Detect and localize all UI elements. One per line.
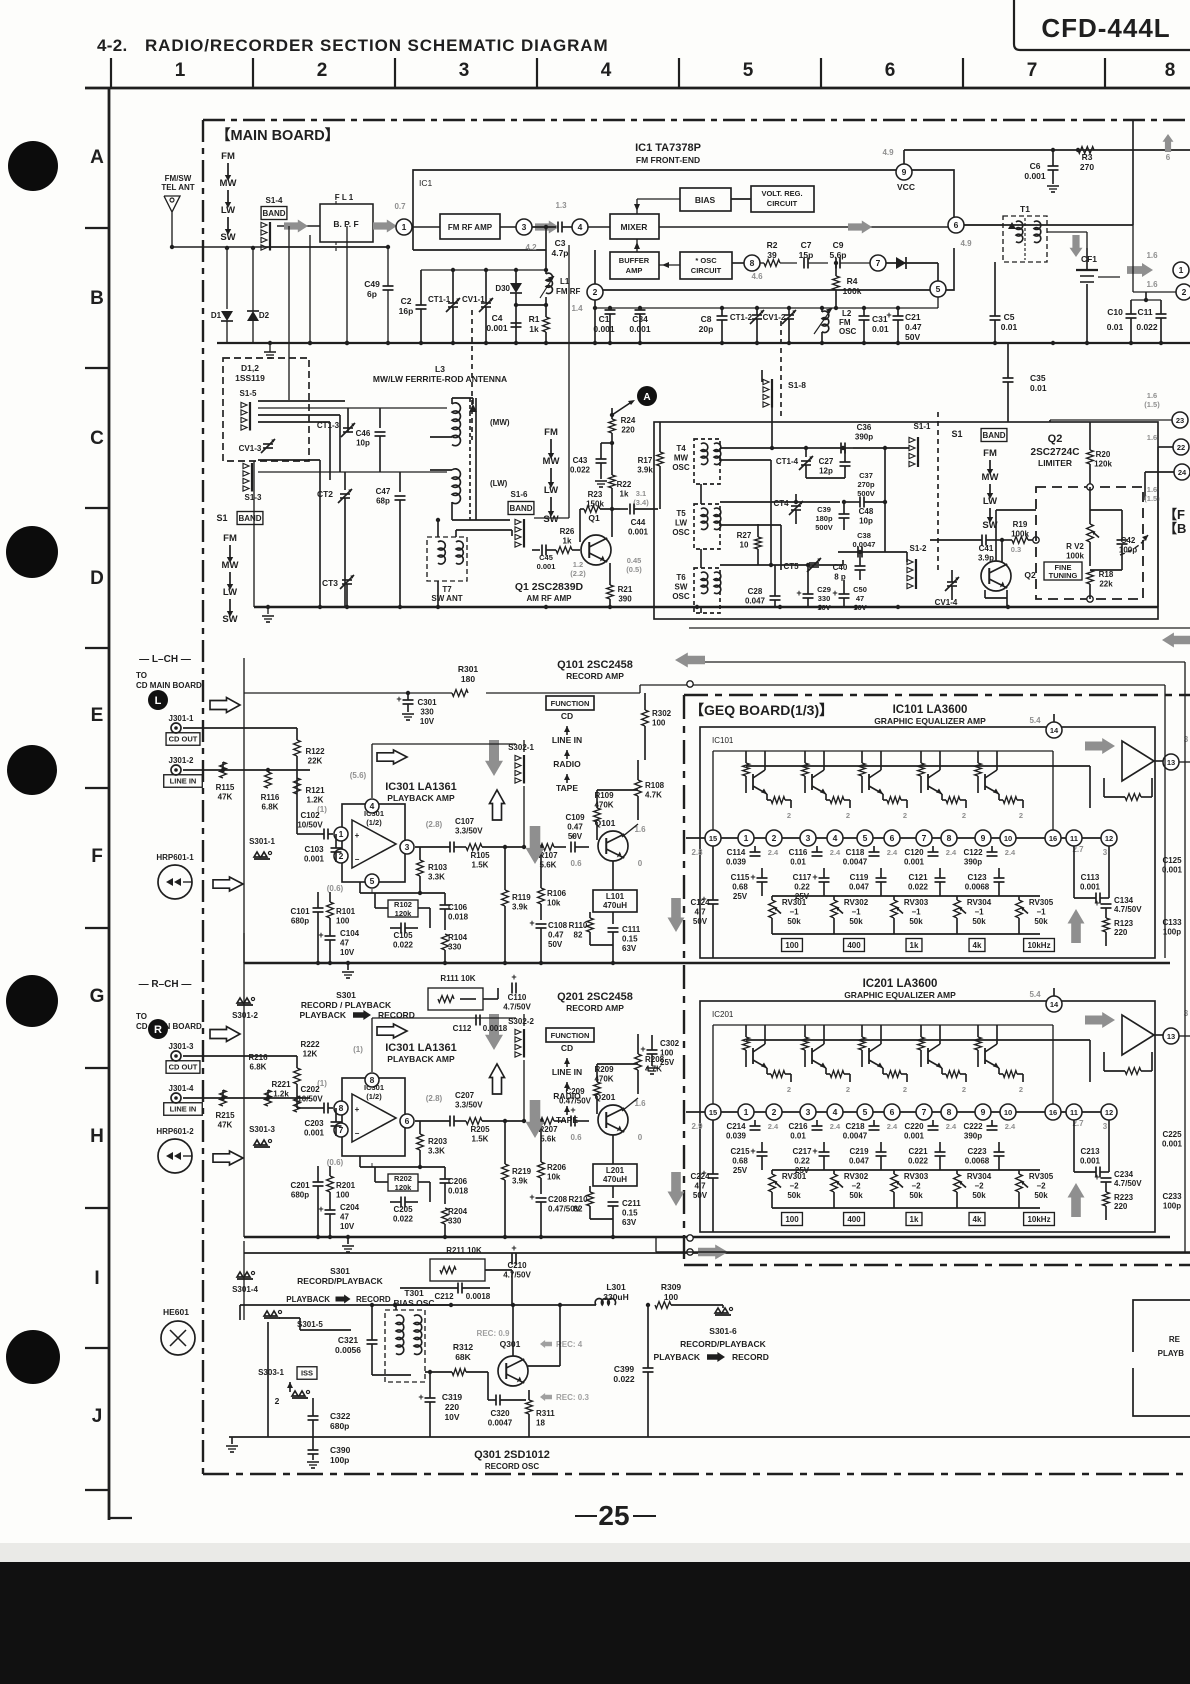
- svg-text:R219: R219: [512, 1167, 532, 1176]
- svg-text:TAPE: TAPE: [556, 783, 578, 793]
- svg-text:1k: 1k: [529, 324, 539, 334]
- svg-text:1k: 1k: [910, 1215, 919, 1224]
- svg-text:2.4: 2.4: [887, 1122, 898, 1131]
- svg-text:330: 330: [818, 594, 831, 603]
- svg-text:* OSC: * OSC: [695, 256, 717, 265]
- svg-text:1SS119: 1SS119: [235, 373, 265, 383]
- gray arrow mid down: [526, 826, 545, 864]
- svg-text:100: 100: [785, 1215, 799, 1224]
- svg-text:Q301 2SD1012: Q301 2SD1012: [474, 1449, 550, 1461]
- svg-text:S1-2: S1-2: [910, 544, 927, 553]
- svg-text:T1: T1: [1020, 204, 1030, 214]
- svg-text:IC101: IC101: [712, 736, 734, 745]
- wire pin6 right: [964, 224, 1133, 226]
- svg-text:OSC: OSC: [672, 463, 690, 472]
- svg-text:CV1-4: CV1-4: [935, 598, 958, 607]
- svg-text:0.039: 0.039: [726, 858, 747, 867]
- svg-text:10V: 10V: [853, 603, 866, 612]
- freq box 400: [844, 1213, 865, 1226]
- svg-text:LINE IN: LINE IN: [552, 1067, 582, 1077]
- svg-text:(5.6): (5.6): [350, 771, 367, 780]
- pin 8: [941, 830, 957, 846]
- svg-text:2SC2724C: 2SC2724C: [1031, 447, 1080, 458]
- svg-text:R20: R20: [1096, 450, 1111, 459]
- svg-text:3.9k: 3.9k: [637, 466, 653, 475]
- transformer T7 SW ANT: [427, 537, 467, 581]
- svg-text:15: 15: [709, 1108, 717, 1117]
- geq cell resistor 3: [887, 797, 901, 804]
- svg-text:MW: MW: [674, 454, 689, 463]
- pin 10: [1000, 830, 1016, 846]
- gray arrow left top geq: [675, 653, 705, 668]
- svg-text:CT2: CT2: [317, 489, 333, 499]
- amp out wires: [597, 1063, 638, 1065]
- svg-text:REC: 0.3: REC: 0.3: [556, 1393, 589, 1402]
- svg-text:【GEQ BOARD(1/3)】: 【GEQ BOARD(1/3)】: [690, 702, 833, 718]
- svg-text:+: +: [318, 930, 323, 940]
- svg-text:680p: 680p: [291, 917, 309, 926]
- svg-text:2: 2: [275, 1396, 280, 1406]
- svg-text:3.9k: 3.9k: [512, 903, 528, 912]
- svg-text:RV303: RV303: [904, 898, 929, 907]
- svg-text:C110: C110: [508, 993, 527, 1002]
- svg-text:0.022: 0.022: [613, 1374, 635, 1384]
- svg-text:0.039: 0.039: [726, 1132, 747, 1141]
- svg-text:CT1-4: CT1-4: [776, 457, 799, 466]
- wire SW row: [265, 246, 388, 248]
- svg-text:S301-1: S301-1: [249, 837, 275, 846]
- svg-text:(2.8): (2.8): [426, 1094, 443, 1103]
- svg-text:RECORD AMP: RECORD AMP: [566, 671, 624, 681]
- svg-text:C10: C10: [1107, 307, 1123, 317]
- svg-text:C212: C212: [434, 1292, 454, 1301]
- svg-text:IC201: IC201: [712, 1010, 734, 1019]
- svg-text:8: 8: [947, 1107, 952, 1117]
- arrow down CF1: [1070, 235, 1083, 257]
- svg-text:220: 220: [621, 426, 635, 435]
- svg-text:680p: 680p: [291, 1191, 309, 1200]
- svg-text:S1: S1: [951, 429, 962, 439]
- svg-text:0.001: 0.001: [593, 324, 615, 334]
- svg-text:100: 100: [660, 1049, 674, 1058]
- svg-text:FM RF AMP: FM RF AMP: [448, 223, 493, 232]
- svg-text:IC1: IC1: [419, 178, 433, 188]
- svg-text:12: 12: [1105, 834, 1113, 843]
- gray arrow S302 down: [485, 1014, 503, 1050]
- geq cell transistor 3: [861, 1025, 863, 1037]
- svg-text:C45: C45: [539, 553, 553, 562]
- svg-text:R101: R101: [336, 907, 356, 916]
- svg-text:+: +: [355, 1105, 360, 1114]
- pin circle 2 right edge: [1176, 284, 1190, 300]
- svg-text:0.0018: 0.0018: [466, 1292, 491, 1301]
- svg-text:−1: −1: [851, 908, 861, 917]
- wire q2 top: [995, 510, 997, 561]
- wire conduit y685: [640, 684, 1165, 686]
- svg-text:+: +: [511, 972, 516, 982]
- svg-text:39: 39: [767, 250, 777, 260]
- svg-text:25V: 25V: [660, 1058, 675, 1067]
- resistor R222: [294, 1068, 301, 1084]
- pin 12: [1101, 1104, 1117, 1120]
- svg-text:C35: C35: [1030, 373, 1046, 383]
- open arrow near node: [210, 698, 240, 713]
- svg-text:0.01: 0.01: [790, 858, 806, 867]
- grid row ruler: [108, 88, 111, 1520]
- svg-text:R102: R102: [394, 900, 412, 909]
- svg-text:50k: 50k: [909, 917, 923, 926]
- IC101 inner box: [700, 727, 1155, 958]
- svg-text:+: +: [529, 918, 534, 928]
- svg-text:4.2: 4.2: [525, 243, 537, 252]
- svg-text:R215: R215: [215, 1111, 235, 1120]
- gray arrow left down: [668, 898, 685, 932]
- svg-text:RV305: RV305: [1029, 1172, 1054, 1181]
- bus grounds: [347, 963, 349, 970]
- pin 7: [870, 255, 886, 271]
- svg-text:RV303: RV303: [904, 1172, 929, 1181]
- gray REC 4: [540, 1340, 552, 1348]
- svg-text:C: C: [90, 428, 104, 449]
- svg-text:D30: D30: [495, 284, 510, 293]
- geq cell transistor 2: [804, 751, 806, 763]
- svg-text:C50: C50: [853, 585, 867, 594]
- coil L3 MW: [452, 403, 460, 446]
- svg-text:+: +: [396, 694, 401, 704]
- svg-text:BUFFER: BUFFER: [619, 256, 650, 265]
- svg-text:4.7: 4.7: [694, 908, 706, 917]
- svg-text:J301-4: J301-4: [169, 1084, 194, 1093]
- svg-text:5: 5: [863, 833, 868, 843]
- svg-text:6: 6: [1166, 153, 1171, 162]
- svg-text:10/50V: 10/50V: [297, 1095, 323, 1104]
- svg-text:1: 1: [175, 60, 186, 81]
- svg-text:+: +: [529, 1192, 534, 1202]
- svg-text:Q1 2SC2839D: Q1 2SC2839D: [515, 581, 584, 593]
- svg-text:3: 3: [806, 833, 811, 843]
- block FM RF AMP: [440, 214, 500, 239]
- svg-text:(2.2): (2.2): [570, 569, 586, 578]
- pin 14: [1046, 996, 1062, 1012]
- svg-text:0.0018: 0.0018: [483, 1024, 508, 1033]
- svg-text:2: 2: [846, 811, 850, 820]
- svg-text:R311: R311: [536, 1409, 555, 1418]
- freq box 1k: [906, 939, 922, 952]
- svg-text:(MW): (MW): [490, 418, 510, 427]
- svg-text:1.5K: 1.5K: [472, 861, 489, 870]
- svg-text:16p: 16p: [399, 306, 414, 316]
- svg-text:6: 6: [890, 833, 895, 843]
- svg-text:4: 4: [833, 833, 838, 843]
- svg-text:LINE IN: LINE IN: [552, 735, 582, 745]
- channel wires in: [183, 1055, 297, 1057]
- arrow MIXER-BUFFER: [636, 239, 638, 252]
- svg-text:R23: R23: [588, 490, 603, 499]
- svg-text:0.0068: 0.0068: [965, 1157, 990, 1166]
- wires antenna section: [253, 461, 255, 607]
- svg-text:5.4: 5.4: [1029, 716, 1041, 725]
- pin 14: [1046, 722, 1062, 738]
- svg-text:68p: 68p: [376, 497, 390, 506]
- capacitor C216: [812, 1125, 823, 1127]
- svg-text:0.001: 0.001: [1024, 171, 1046, 181]
- svg-text:+: +: [796, 588, 801, 598]
- svg-text:R122: R122: [305, 747, 325, 756]
- svg-text:180p: 180p: [815, 514, 833, 523]
- op amp pins: [365, 799, 379, 813]
- svg-text:C322: C322: [330, 1411, 351, 1421]
- svg-text:S303-1: S303-1: [258, 1368, 284, 1377]
- svg-text:8: 8: [370, 1075, 375, 1085]
- svg-text:12K: 12K: [303, 1050, 318, 1059]
- svg-text:C220: C220: [904, 1122, 924, 1131]
- svg-text:0.001: 0.001: [537, 562, 556, 571]
- svg-text:4: 4: [578, 222, 583, 232]
- svg-text:RECORD: RECORD: [732, 1352, 769, 1362]
- svg-text:0.7: 0.7: [394, 202, 406, 211]
- svg-text:390p: 390p: [964, 858, 982, 867]
- svg-text:7: 7: [1027, 60, 1038, 81]
- svg-text:D1: D1: [211, 311, 222, 320]
- svg-text:SW: SW: [675, 583, 688, 592]
- capacitor C119: [876, 877, 887, 879]
- svg-text:+: +: [886, 310, 891, 320]
- svg-text:C399: C399: [614, 1364, 635, 1374]
- svg-text:SW: SW: [543, 514, 558, 525]
- svg-text:C134: C134: [1114, 896, 1134, 905]
- svg-text:12: 12: [1105, 1108, 1113, 1117]
- geq cell resistor 4: [946, 797, 960, 804]
- wire vertical x289: [288, 226, 290, 400]
- pin circle 24: [1174, 464, 1190, 480]
- am osc wires: [720, 447, 806, 449]
- IC1 internal box: [413, 170, 954, 290]
- bus grounds: [347, 1237, 349, 1244]
- svg-text:63V: 63V: [622, 944, 637, 953]
- svg-text:5: 5: [743, 60, 754, 81]
- svg-text:R123: R123: [1114, 919, 1134, 928]
- svg-text:R309: R309: [661, 1282, 682, 1292]
- svg-text:1.2: 1.2: [573, 560, 583, 569]
- svg-text:18: 18: [536, 1419, 545, 1428]
- svg-text:S1-8: S1-8: [788, 380, 806, 390]
- svg-text:1k: 1k: [620, 490, 629, 499]
- svg-text:L2: L2: [842, 309, 852, 318]
- svg-text:0.15: 0.15: [622, 935, 638, 944]
- svg-text:CT1-3: CT1-3: [317, 421, 340, 430]
- wire D30 L1 link: [516, 304, 546, 306]
- svg-text:10V: 10V: [340, 1222, 355, 1231]
- svg-text:C112: C112: [453, 1024, 472, 1033]
- svg-text:【MAIN BOARD】: 【MAIN BOARD】: [216, 127, 339, 144]
- svg-text:10k: 10k: [547, 899, 561, 908]
- svg-text:+: +: [570, 1105, 575, 1115]
- svg-text:−: −: [355, 855, 360, 864]
- main board outline: [203, 119, 1190, 121]
- svg-text:RV304: RV304: [967, 898, 992, 907]
- svg-text:4.6: 4.6: [751, 272, 763, 281]
- svg-text:D2: D2: [259, 311, 270, 320]
- svg-text:330: 330: [448, 943, 462, 952]
- svg-text:−1: −1: [911, 908, 921, 917]
- IC301 op amp box: [342, 804, 405, 882]
- svg-text:5: 5: [936, 284, 941, 294]
- svg-text:TEL ANT: TEL ANT: [161, 183, 194, 192]
- open arrow to S302: [377, 1024, 407, 1038]
- svg-text:Q1: Q1: [588, 513, 600, 523]
- geq cell transistor 4: [920, 1025, 922, 1037]
- svg-text:50k: 50k: [972, 1191, 986, 1200]
- svg-text:6: 6: [405, 1116, 410, 1126]
- svg-text:B: B: [90, 288, 104, 309]
- svg-text:13: 13: [1167, 1032, 1175, 1041]
- svg-text:VOLT. REG.: VOLT. REG.: [761, 189, 802, 198]
- svg-text:5.6K: 5.6K: [540, 861, 557, 870]
- wire S302 drop: [523, 786, 525, 847]
- geq cell resistor 5: [1003, 797, 1017, 804]
- svg-text:FM RF: FM RF: [556, 287, 581, 296]
- wire pin7 to diode: [886, 262, 938, 264]
- svg-text:D1,2: D1,2: [241, 363, 259, 373]
- svg-text:12p: 12p: [819, 467, 833, 476]
- svg-text:C47: C47: [376, 487, 391, 496]
- svg-text:50k: 50k: [849, 917, 863, 926]
- wire C10 C11 top: [1131, 299, 1161, 301]
- open arrow at headphone: [213, 877, 243, 891]
- geq extra bus line: [244, 1252, 1190, 1254]
- svg-text:J301-3: J301-3: [169, 1042, 194, 1051]
- wire BPF to pin1: [373, 225, 396, 227]
- svg-text:T4: T4: [676, 444, 686, 453]
- svg-text:C234: C234: [1114, 1170, 1134, 1179]
- svg-text:Q301: Q301: [500, 1339, 521, 1349]
- svg-text:1k: 1k: [563, 537, 572, 546]
- svg-text:R1: R1: [529, 314, 540, 324]
- svg-text:R202: R202: [394, 1174, 412, 1183]
- svg-text:(1/2): (1/2): [366, 818, 382, 827]
- svg-text:82: 82: [574, 1205, 583, 1214]
- svg-text:50k: 50k: [787, 1191, 801, 1200]
- svg-text:1: 1: [339, 829, 344, 839]
- svg-text:C319: C319: [442, 1392, 463, 1402]
- svg-text:1.6: 1.6: [1146, 280, 1158, 289]
- gray REC 0.3: [540, 1393, 552, 1401]
- svg-text:3: 3: [806, 1107, 811, 1117]
- svg-text:47: 47: [340, 1213, 349, 1222]
- svg-text:Q2: Q2: [1024, 570, 1036, 580]
- svg-text:0.001: 0.001: [904, 1132, 925, 1141]
- resistor R216: [265, 1090, 272, 1106]
- svg-text:C48: C48: [859, 507, 874, 516]
- svg-text:RECORD: RECORD: [356, 1295, 391, 1304]
- svg-text:50V: 50V: [548, 940, 563, 949]
- svg-text:1.6: 1.6: [1146, 251, 1158, 260]
- svg-text:4.7/50V: 4.7/50V: [1114, 1179, 1142, 1188]
- svg-text:C222: C222: [963, 1122, 983, 1131]
- svg-text:RECORD AMP: RECORD AMP: [566, 1003, 624, 1013]
- svg-text:LIMITER: LIMITER: [1038, 458, 1072, 468]
- svg-text:4k: 4k: [973, 1215, 982, 1224]
- svg-text:C39: C39: [817, 505, 831, 514]
- svg-text:LW: LW: [221, 205, 235, 216]
- svg-text:680p: 680p: [330, 1421, 349, 1431]
- svg-text:C221: C221: [908, 1147, 928, 1156]
- svg-text:C104: C104: [340, 929, 360, 938]
- pin 16: [1045, 1104, 1061, 1120]
- svg-text:6: 6: [890, 1107, 895, 1117]
- svg-text:47K: 47K: [218, 793, 233, 802]
- channel ground bus: [244, 962, 1170, 964]
- svg-text:2: 2: [787, 1085, 791, 1094]
- punch hole 1: [8, 141, 58, 191]
- svg-text:2.4: 2.4: [830, 848, 841, 857]
- punch hole 4: [6, 975, 58, 1027]
- svg-text:5: 5: [863, 1107, 868, 1117]
- svg-text:R2: R2: [767, 240, 778, 250]
- svg-text:IC301 LA1361: IC301 LA1361: [385, 781, 457, 793]
- pin 9 VCC: [896, 164, 912, 180]
- svg-text:0.018: 0.018: [448, 913, 469, 922]
- svg-text:16: 16: [1049, 834, 1057, 843]
- svg-text:OSC: OSC: [839, 327, 857, 336]
- svg-text:2.9: 2.9: [691, 1122, 703, 1131]
- svg-text:47: 47: [340, 939, 349, 948]
- svg-text:7: 7: [876, 258, 881, 268]
- svg-text:0.001: 0.001: [1080, 883, 1101, 892]
- capacitor C220: [928, 1125, 939, 1127]
- svg-text:J: J: [92, 1406, 103, 1427]
- resistor R121: [294, 778, 301, 794]
- svg-text:J301-1: J301-1: [169, 714, 194, 723]
- svg-text:S301: S301: [330, 1266, 350, 1276]
- svg-text:25: 25: [598, 1500, 629, 1531]
- geq cell resistor 2: [830, 797, 844, 804]
- punch hole 2: [6, 526, 58, 578]
- bias osc wires: [239, 1305, 241, 1320]
- block OSC CIRCUIT: [680, 252, 732, 279]
- svg-text:C105: C105: [393, 931, 413, 940]
- svg-text:2.4: 2.4: [1005, 848, 1016, 857]
- node A black: [637, 386, 657, 406]
- svg-text:0.6: 0.6: [570, 1133, 582, 1142]
- svg-text:S301-2: S301-2: [232, 1011, 258, 1020]
- svg-text:(LW): (LW): [490, 479, 508, 488]
- svg-text:0.01: 0.01: [1107, 322, 1124, 332]
- svg-text:Q2: Q2: [1048, 433, 1063, 445]
- svg-text:0.001: 0.001: [628, 528, 649, 537]
- svg-text:CD OUT: CD OUT: [169, 735, 198, 744]
- svg-text:CT1-2: CT1-2: [730, 313, 753, 322]
- capacitor C120: [928, 851, 939, 853]
- svg-text:6p: 6p: [367, 289, 377, 299]
- pin row line: [686, 837, 1117, 839]
- amp triangle: [1122, 741, 1154, 781]
- am bus junction dots: [318, 605, 322, 609]
- svg-text:1.6: 1.6: [1147, 485, 1157, 494]
- ground for C6: [1047, 185, 1059, 187]
- svg-text:LW: LW: [544, 485, 558, 496]
- svg-text:REC: 0.9: REC: 0.9: [477, 1329, 510, 1338]
- pin 2: [766, 830, 782, 846]
- feedback resistor: [1125, 794, 1141, 801]
- svg-text:L301: L301: [606, 1282, 626, 1292]
- svg-text:(1.5): (1.5): [1144, 400, 1160, 409]
- wire switch to BPF: [277, 225, 320, 227]
- resistor R221: [294, 1096, 301, 1112]
- arrow after pin3: [535, 221, 559, 234]
- svg-text:(1/2): (1/2): [366, 1092, 382, 1101]
- wire pin4 riser: [371, 1018, 373, 1072]
